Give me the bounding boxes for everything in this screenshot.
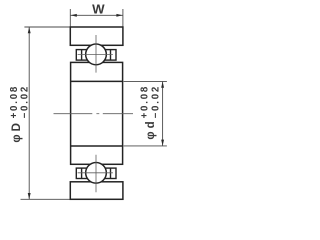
extension line phid bottom [124,145,167,147]
label phiD with tolerance (rotated) [9,85,30,143]
bore line top [71,80,123,82]
cage top-left inner edge [81,50,83,61]
svg-text:−0.02: −0.02 [150,85,161,119]
ball bottom centerline horizontal [78,172,113,174]
axis centerline [54,113,134,115]
svg-text:φD: φD [11,120,23,143]
arrowhead W left [71,14,77,17]
ball top [86,44,107,65]
label phid with tolerance (rotated) [140,85,162,140]
bore line bottom [71,145,123,147]
cage bottom-left [76,168,88,178]
cage top-right [104,50,116,61]
arrowhead phiD bottom [28,193,31,199]
inner ring [71,62,123,164]
cage top-right inner edge [110,50,112,61]
cage bottom-left inner edge [81,168,83,178]
ball top centerline vertical [95,35,97,73]
dimension line phiD [28,27,30,199]
extension line W left [69,9,71,27]
ball bottom centerline vertical [95,155,97,193]
arrowhead phid bottom [161,140,164,146]
ball bottom [86,162,107,183]
svg-text:+0.08: +0.08 [9,85,20,119]
outer ring top [70,27,123,45]
arrowhead phiD top [28,27,31,33]
cage top-left [76,50,88,61]
ball top centerline horizontal [78,53,113,55]
dimension line phid [162,82,164,146]
extension line W right [122,9,124,27]
extension line phiD bottom [21,198,70,200]
svg-text:W: W [92,2,105,17]
arrowhead phid top [161,82,164,88]
outer ring bottom [70,182,123,200]
svg-text:φd: φd [145,118,157,139]
dimension line W [71,14,123,16]
extension line phid top [124,80,167,82]
arrowhead W right [116,14,122,17]
extension line phiD top [24,26,69,28]
cage bottom-right inner edge [110,168,112,178]
cage bottom-right [104,168,116,178]
svg-text:+0.08: +0.08 [140,85,151,119]
svg-text:−0.02: −0.02 [20,85,31,119]
